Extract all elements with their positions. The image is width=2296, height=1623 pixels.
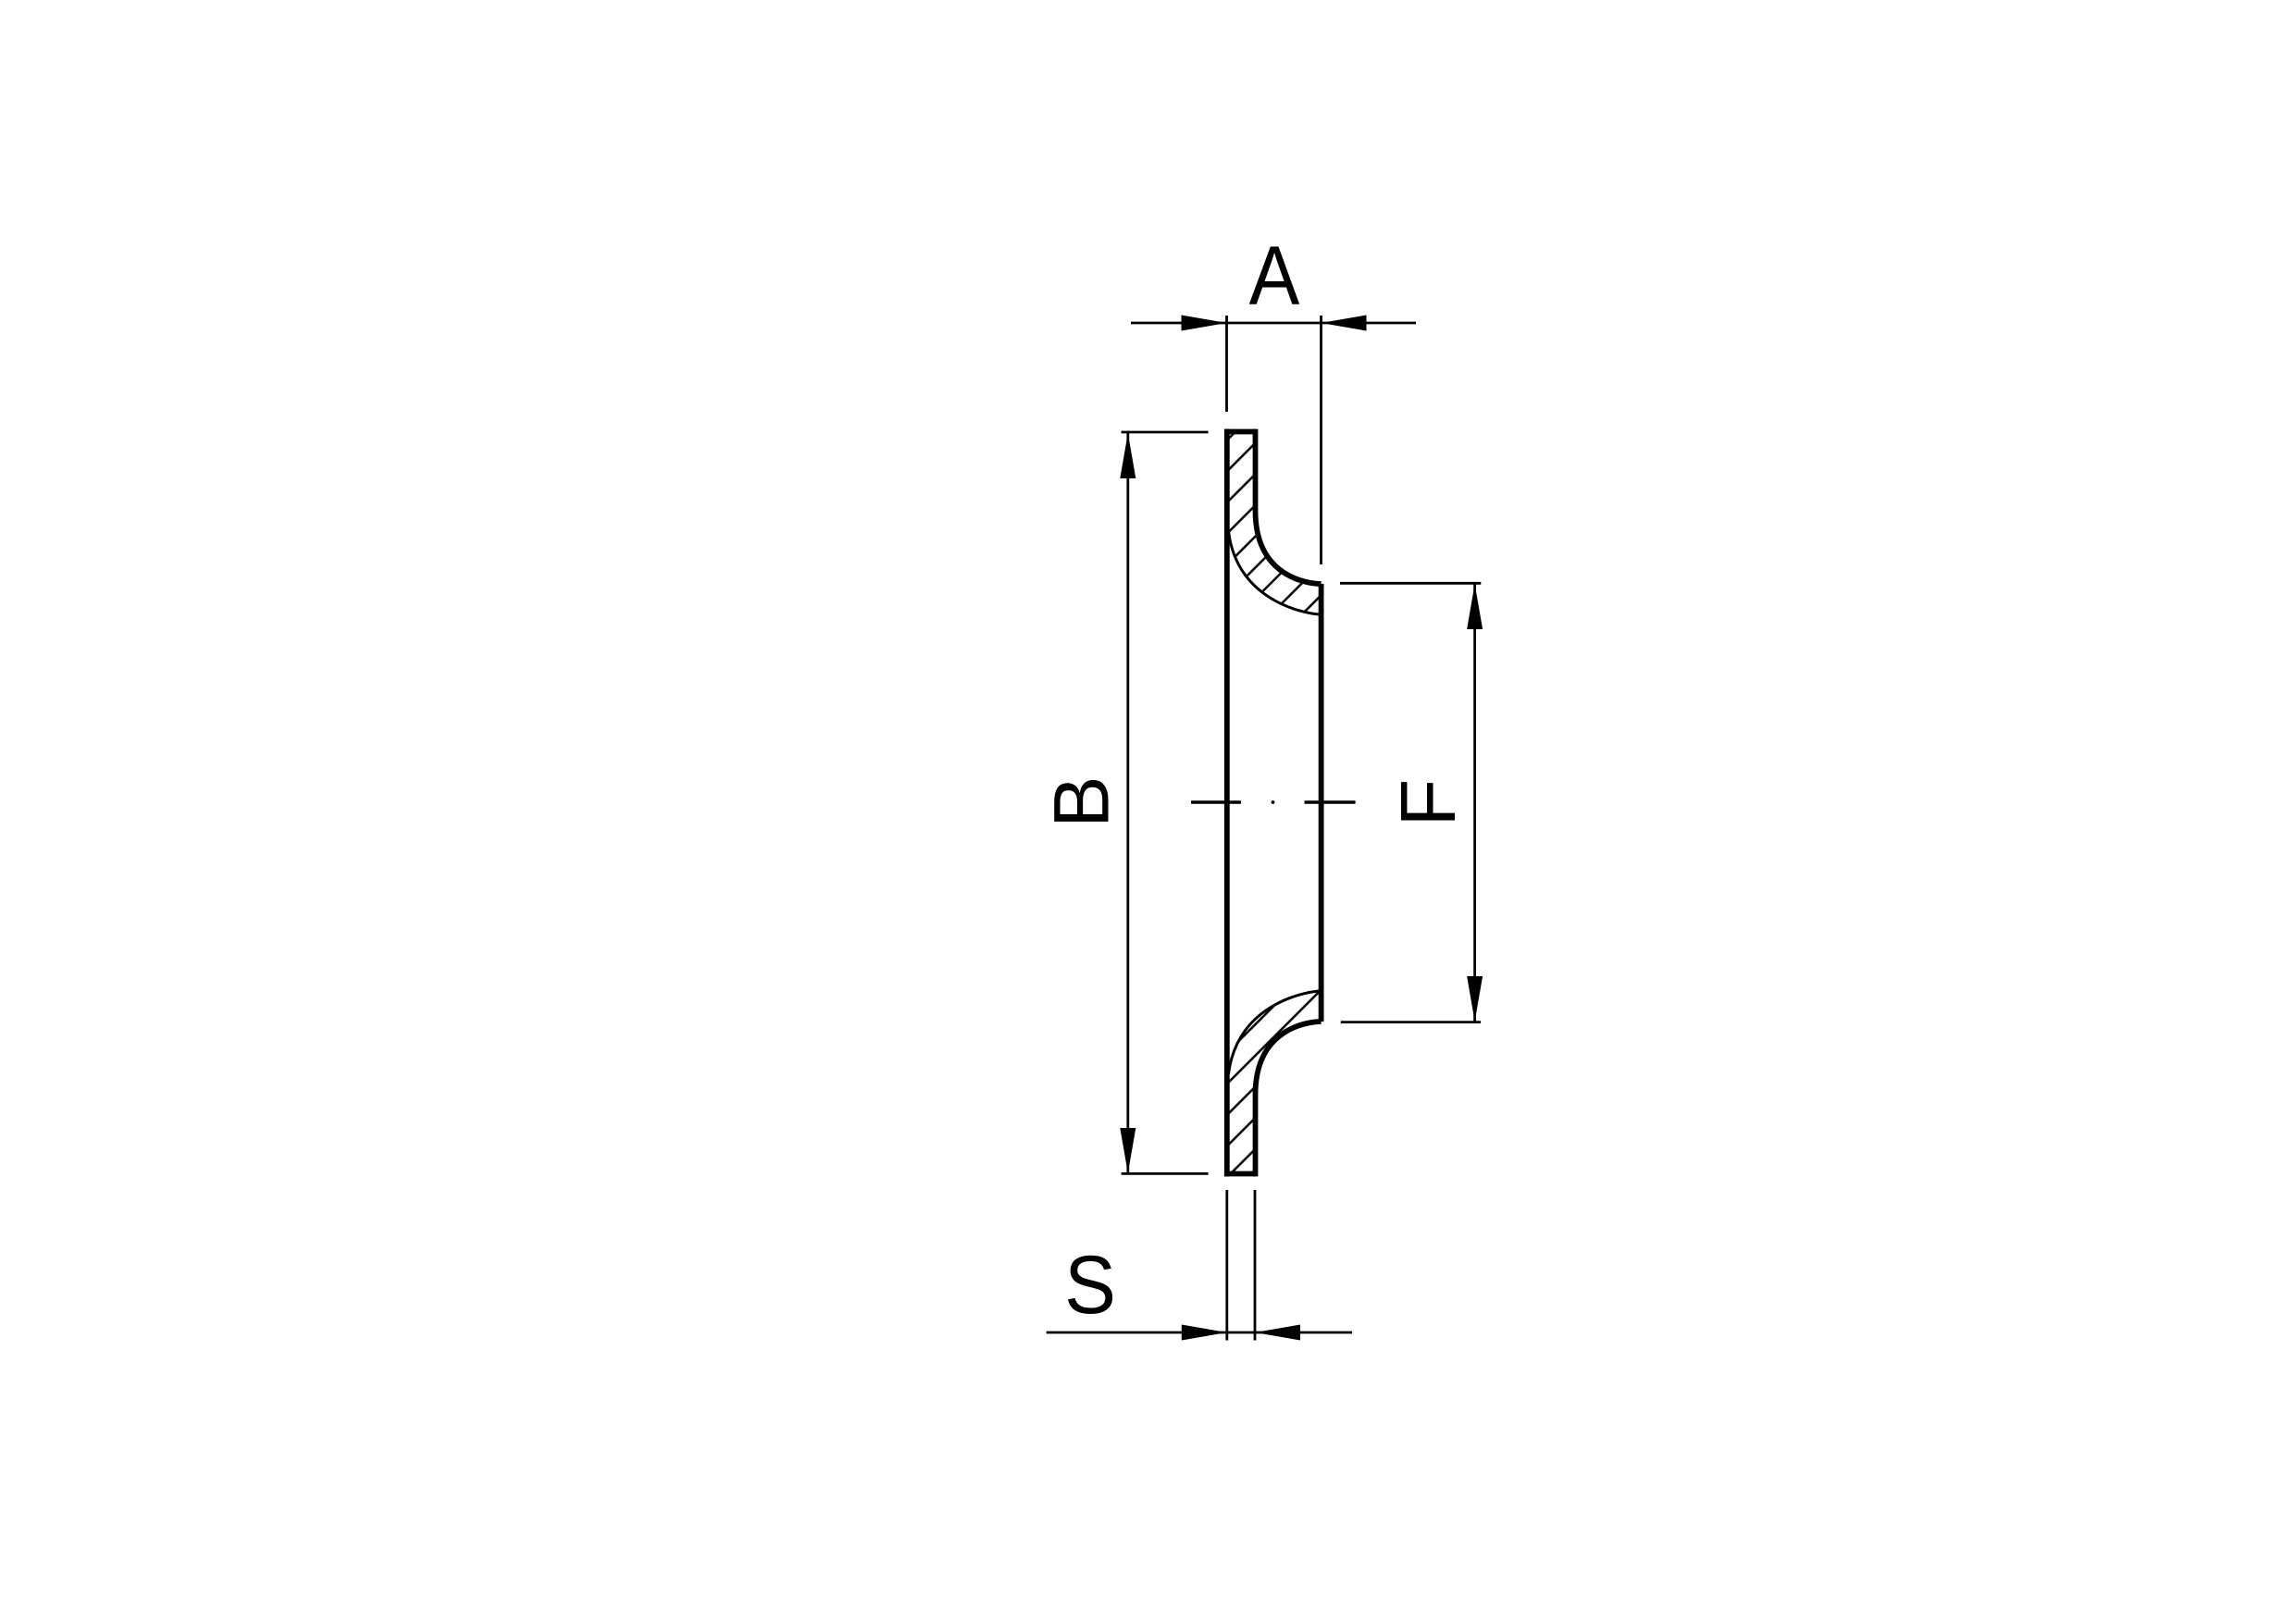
svg-text:F: F — [1384, 779, 1471, 827]
dimension F top arrow — [1467, 584, 1483, 629]
dimension F line — [1473, 584, 1476, 1022]
wall inner edge bottom — [1256, 1022, 1322, 1176]
dimension A left extension line — [1225, 316, 1228, 412]
centerline dot — [1272, 800, 1275, 804]
dimension S right extension line — [1254, 1190, 1257, 1341]
dimension B bottom extension line — [1122, 1172, 1209, 1175]
flange face outline (left vertical) — [1224, 429, 1230, 1177]
dimension F bottom arrow — [1467, 976, 1483, 1022]
dimension F top extension line — [1340, 582, 1481, 585]
svg-text:S: S — [1064, 1238, 1116, 1331]
section region bottom (hatched) — [1227, 991, 1322, 1174]
dimension B bottom arrow — [1120, 1128, 1136, 1173]
dimension A line — [1131, 322, 1416, 325]
dimension S left extension line — [1225, 1190, 1228, 1341]
dimension B line — [1126, 433, 1129, 1173]
dimension B top extension line — [1122, 431, 1209, 434]
wall inner edge top — [1256, 429, 1322, 584]
dimension A right extension line — [1320, 316, 1322, 564]
neck rim edge (right vertical) — [1319, 584, 1324, 1022]
top cap edge — [1224, 429, 1256, 435]
dimension B top arrow — [1120, 433, 1136, 478]
section region top (hatched) — [1227, 432, 1322, 615]
centerline left tick — [1191, 800, 1241, 803]
svg-text:A: A — [1249, 230, 1300, 323]
centerline right tick — [1305, 800, 1356, 803]
bottom cap edge — [1224, 1171, 1256, 1177]
bore-side curve top (thin) — [1229, 531, 1322, 614]
dimension S right arrow — [1255, 1325, 1300, 1341]
dimension A right arrow — [1322, 316, 1367, 331]
dimension A left arrow — [1182, 316, 1227, 331]
dimension S line — [1047, 1332, 1352, 1334]
dimension S left arrow — [1182, 1325, 1227, 1341]
svg-text:B: B — [1037, 775, 1124, 827]
bore-side curve bottom (thin) — [1229, 991, 1322, 1074]
dimension F bottom extension line — [1341, 1021, 1481, 1023]
